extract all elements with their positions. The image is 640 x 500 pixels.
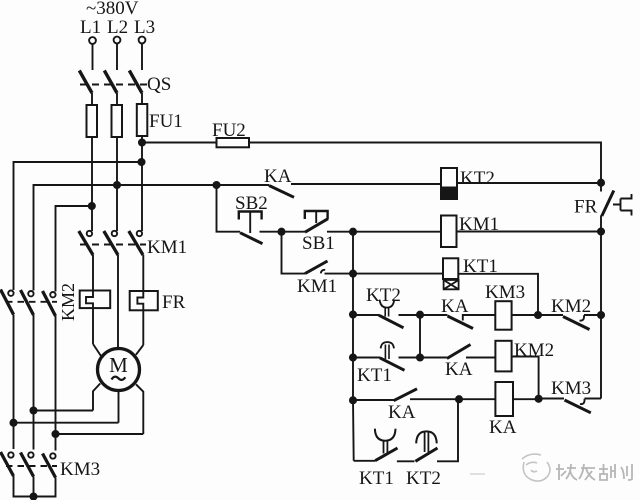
node winding bus1 junction [30,407,36,413]
label KM2 rotated [58,283,78,321]
relay contact KA top blade [269,186,294,198]
svg-text:L2: L2 [107,17,128,38]
wire KM2 pole1 down [13,315,15,450]
svg-text:L3: L3 [134,17,155,38]
node row2 right junction [535,312,541,318]
contactor KM3 pole2 blade [21,453,34,477]
wire KA coil to node [513,398,539,400]
svg-text:KT2: KT2 [406,468,441,489]
motor M circle [98,349,140,391]
label KT1 bottom [359,468,394,489]
label KT1 coil [463,256,498,277]
wire row3 right terminal [399,357,421,359]
wire KM1 aux branch drop [282,232,306,274]
KM2 linkage dashed [6,301,57,303]
node row4 mid junction [456,396,462,402]
contactor KM1 main pole2 terminal [112,231,117,236]
node row3 mid junction [417,354,423,360]
label KM2 NC [551,296,591,317]
svg-text:KT1: KT1 [357,365,392,386]
svg-text:QS: QS [147,74,171,95]
node row4 left junction [350,397,356,403]
wire KM1 pole2 to motor [117,255,119,349]
wire KM1 pole3 to FR heater (with jog) [137,255,143,345]
thermal contact FR NC blade [602,191,614,217]
svg-text:KM2: KM2 [514,340,554,361]
pushbutton SB1 NO blade [305,219,328,233]
thermal relay FR heater 1 [80,291,111,309]
label KT2 bottom [406,468,441,489]
wire SB2 branch drop [217,185,241,232]
node winding bus3 junction [52,431,58,437]
svg-text:KM3: KM3 [551,378,591,399]
wire SB2 to SB1 [260,231,282,233]
motor M letter [109,353,128,377]
label KT2 coil [460,168,495,189]
label KA row3 [445,359,473,380]
KT2 NO delay stem [425,432,429,452]
label SB2 [235,193,268,214]
switch QS pole 2 blade [104,71,117,94]
label KM1 coil [459,214,499,235]
node row2 left junction [350,311,356,317]
wire winding bus 1 [34,410,94,412]
wire KM3 NC left terminal [539,398,564,400]
switch QS pole 1 blade [79,71,92,94]
contactor KM3 pole2 terminal [28,452,33,457]
wire KM1 pole1 to FR heater (with jog) [86,255,93,344]
coil KT2 [441,168,457,199]
pushbutton SB2 actuator [239,212,262,220]
label KA row2 [441,296,469,317]
fuse FU1 element 2 [112,105,123,137]
svg-text:KA: KA [388,402,416,423]
wire row3 KA left terminal [420,357,447,359]
label KM1 aux [297,276,337,297]
contactor KM2 pole2 blade [21,290,34,315]
wire SB1 node down to aux node [352,232,354,274]
svg-text:KA: KA [441,296,469,317]
wire left bus from L3 [14,162,142,290]
KT1 delay cup (open down) [381,342,394,348]
wire motor lead top-right [136,345,143,355]
pushbutton SB2 plunger [249,212,251,234]
svg-text:KM1: KM1 [147,237,187,258]
KT1 delay stem [385,345,389,360]
wire KM3 pole2 to star bus [33,477,35,497]
node junction L1 to left bus [89,203,95,209]
wire KT1 coil line [353,273,443,275]
fuse FU1 element 3 [137,104,148,136]
wire bottom branch drop [354,460,376,462]
wire row2 KA left terminal [420,314,448,316]
relay contact KA row2 blade [448,316,474,329]
wire KT1 coil right to corner [458,274,538,315]
contactor KM2 pole3 blade [43,291,56,316]
KM2 NC hook [580,315,585,320]
contactor KM3 pole3 blade [43,454,56,478]
label KA coil [489,417,517,438]
wire row4 right terminal [410,398,495,400]
node row3 left junction [350,354,356,360]
contactor KM2 pole3 terminal [50,292,55,297]
wire KM2 NC left terminal [538,314,563,316]
wire row2-row3 tie vertical [419,315,421,358]
node SB1 left junction [278,229,284,235]
thermal relay FR heater 2 [130,291,158,310]
wire through fuses down to KM1 pole2 [116,105,118,231]
wire right rail down [600,232,602,399]
contactor KM1 main pole3 blade [129,231,143,255]
svg-text:KT2: KT2 [366,285,401,306]
label QS [147,74,171,95]
pushbutton SB1 plunger [315,211,317,223]
contact KM2 NC blade [563,317,590,330]
fuse FU2 [217,138,250,147]
svg-text:KM2: KM2 [551,296,591,317]
svg-text:SB1: SB1 [302,233,335,254]
node junction L2 to control bus [114,182,120,188]
wire left bus from L1 [56,206,92,292]
contact KT2 NC delayed blade [379,315,404,328]
label KT2 row2 [366,285,401,306]
contactor KM2 pole1 terminal [8,291,13,296]
relay contact KA row4 blade [394,389,417,401]
KM1 linkage dashed [80,244,146,246]
watermark logo [470,454,550,481]
node L1 terminal [89,37,96,44]
label FU1 [149,111,183,132]
wire KM2 NC right terminal [584,314,601,316]
wire FR bottom to KM1 coil line [600,216,602,232]
wire through fuses down to KM1 pole1 [91,105,93,231]
KT1 NO delay cup (open up) [375,429,396,441]
node SB1 right junction [350,229,356,235]
wire row2 right terminal [399,314,421,316]
wire QS to FU1 pole2 [116,93,118,105]
coil KT2 filled delay section [441,188,457,200]
label L1 [80,17,101,38]
node winding bus2 junction [10,420,16,426]
node junction L3 to FU2 [139,139,145,145]
FR NC release hook [613,194,632,216]
switch QS pole 3 blade [129,71,142,94]
label FR heaters [162,292,186,313]
wire SB1 right terminal [327,231,353,233]
contact KT2 NO delayed blade [415,448,437,461]
wire winding bus 2 [14,422,119,424]
wire KM1 aux right terminal [325,273,354,275]
svg-text:KA: KA [264,166,292,187]
wire control bus L2 phase [117,184,269,186]
coil KA [495,382,513,416]
wire row2 KA right terminal [463,315,496,321]
contact KM3 NC blade [565,400,591,413]
contactor KM1 main pole1 terminal [87,231,92,236]
label FR contact [574,197,598,218]
label SB1 [302,233,335,254]
label KT1 row3 [357,365,392,386]
wire KM3 NC right terminal [585,398,602,400]
relay contact KA row3 blade [447,345,471,359]
wire KA to KT2 coil [291,183,441,185]
svg-text:KM3: KM3 [60,459,100,480]
KM3 linkage dashed [6,465,57,467]
contactor KM3 pole3 terminal [50,453,55,458]
label KM3 NC [551,378,591,399]
svg-text:KA: KA [445,359,473,380]
coil KM3 [495,301,511,330]
wire KM2 pole2 down [33,315,35,450]
label KA top [264,166,292,187]
label L2 [107,17,128,38]
svg-text:KM2: KM2 [58,283,78,321]
svg-text:M: M [109,353,128,377]
wire L2 drop to QS [116,44,118,71]
wire bottom branch right riser [437,399,458,461]
wire winding bus 3 [56,433,144,435]
wire KM2 pole3 down [55,316,57,451]
pushbutton SB1 actuator [305,211,328,219]
wire L1 drop to QS [92,44,94,70]
node junction L3 to left bus [138,159,144,165]
wire row2 left terminal [353,314,379,316]
contact KM1 aux NO blade [305,261,328,274]
svg-text:KA: KA [489,417,517,438]
fuse FU1 element 1 [87,105,98,137]
KM3 NC hook [580,399,585,404]
coil KM2 [495,341,511,372]
contactor KM1 main pole1 blade [79,231,93,255]
node KM1 aux right junction [350,271,356,277]
svg-text:FR: FR [162,292,186,313]
label FU2 [212,120,246,141]
wire KM2 coil right to corner [512,357,539,399]
contactor KM3 pole1 terminal [8,452,13,457]
svg-text:KT2: KT2 [460,168,495,189]
wire FU2 to right rail [249,143,601,192]
svg-text:L1: L1 [80,17,101,38]
wire KM1 coil to right rail [457,231,602,233]
label L3 [134,17,155,38]
label ~380V [86,0,139,19]
wire through fuses down to KM1 pole3 [141,104,143,231]
QS linkage dashed [80,84,148,86]
wire KM3 coil to node [512,314,538,316]
wire L3 to FU2 [142,142,217,144]
label KA row4 [388,402,416,423]
KM1 aux hook [321,270,325,274]
wire motor lead bottom-left [93,384,100,411]
node row4 right junction [536,396,542,402]
label KM2 coil [514,340,554,361]
contactor KM2 pole1 blade [1,290,14,315]
svg-text:KM3: KM3 [485,282,525,303]
node L2 terminal [114,37,121,44]
wire motor lead bottom-mid [118,391,120,423]
feed rail vertical [352,274,355,461]
node star point junction [30,493,36,499]
node KM1 return junction [598,228,604,234]
label KM3 coil [485,282,525,303]
KT2 NO delay cup (open down) [416,431,437,443]
wire KM1 coil line [353,231,441,233]
wire KT2 coil to right rail [457,182,601,184]
contactor KM3 pole1 blade [1,452,14,476]
watermark text 技成培训 [556,464,632,480]
contact KT1 NC delayed blade [380,358,405,371]
wire row3 KA right terminal [466,357,495,359]
wire left bus from L2 (control tap) [34,185,118,291]
KT1 NO delay stem [384,441,388,454]
node KM2 NC rail junction [598,312,604,318]
KT2 delay cup (open up) [380,300,395,308]
contactor KM2 pole2 terminal [28,291,33,296]
wire L3 drop to QS [141,44,143,71]
wire KM3 outputs to star bus [14,476,56,497]
contactor KM1 main pole3 terminal [137,231,142,236]
wire row4 left terminal [353,399,394,401]
node L3 terminal [139,37,146,44]
coil KT1 delay box with X [444,280,459,289]
coil KM1 [441,216,457,248]
label KM3 [60,459,100,480]
svg-text:FU1: FU1 [149,111,183,132]
coil KT1 [443,258,458,279]
svg-text:KT1: KT1 [359,468,394,489]
wire motor lead top-left [93,344,101,356]
pushbutton SB2 NC blade [240,233,263,244]
KT2 delay stem [385,308,388,317]
wire row3 left terminal [353,357,380,359]
node SB2 branch junction [213,182,219,188]
node KT2 return junction [598,180,604,186]
wire bottom mid terminal [397,460,415,462]
wire QS to FU1 pole1 [91,93,93,105]
svg-text:KM1: KM1 [297,276,337,297]
wire motor lead bottom-right [136,384,143,434]
label KM1 main [147,237,187,258]
contact KT1 NO delayed blade [375,448,397,461]
wire QS to FU1 pole3 [141,93,143,104]
node row2 mid junction [417,312,423,318]
wire SB1 left terminal [282,231,306,233]
svg-text:FR: FR [574,197,598,218]
contactor KM1 main pole2 blade [104,231,118,255]
